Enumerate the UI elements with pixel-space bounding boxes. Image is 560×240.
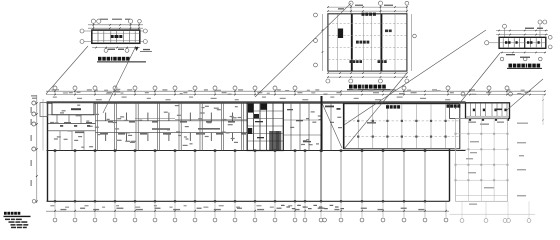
bottom dimension line [46,210,449,212]
detail 2 room label middle [356,41,359,44]
right canopy interior dots [473,109,475,112]
bottom dimension texts [60,209,66,210]
detail 3 center thick mullion [524,38,526,48]
detail 3 right axis circle lower [548,45,552,49]
stair core internal verticals [253,103,255,151]
existing building outline (light) [456,118,508,201]
detail 3 top axis circle C [543,20,547,24]
detail 2 top axis circle B [378,1,382,5]
detail 1 title underline [97,61,146,63]
detail 3 top dimension text [525,28,534,29]
right hall column ticks [357,120,359,122]
corridor line D left zone [48,130,96,132]
detail 1 right extension lines [140,30,144,32]
detail 2 top dimension line 1 [328,6,407,8]
existing building stems (light) [461,201,463,218]
detail 2 title underline [347,89,391,91]
note line 4 [11,227,16,229]
right hall outline [344,104,460,149]
detail 1 bottom dimension text [108,49,115,50]
detail 2 room label lower-right [378,60,381,63]
leader line from detail 3 to right canopy right [507,79,543,110]
detail 3 right axis circle upper [548,35,552,39]
detail 1 bottom axis circle b [125,49,129,53]
stair flight hatching [269,131,271,150]
drawing title text [4,212,7,215]
building left wall [47,102,49,202]
left dimension inner line [42,99,44,151]
detail view 1 (canopy enlarged plan) - group [80,19,152,62]
middle zone door ticks upper row [105,113,107,121]
note line 1 [5,219,10,221]
detail 1 left axis circle lower [80,40,84,44]
existing building grid verticals (light) [467,118,469,201]
leader line from detail 3 to right canopy left [455,53,500,109]
leader line from detail 2 left to plan [255,3,351,97]
detail 1 top axis circle A [91,19,95,23]
building top wall inner line [47,102,466,104]
corridor line upper middle zone [96,120,248,122]
detail 1 section arrow triangle [135,47,139,51]
left zone partition verticals [56,115,58,124]
right hall label dark [386,105,389,108]
lobby label text [71,108,81,110]
detail 3 window mullions [502,38,504,47]
drawing title underline [4,215,31,217]
right canopy label [495,109,502,111]
gap room partition [330,103,332,151]
corridor line C left zone [48,123,96,125]
left axis circle bottom corner [32,200,36,204]
right hall internal verticals [357,104,359,148]
detail view 2 (roof / machine-room enlarged plan) - group [314,1,417,90]
extra top dimension tiny texts [54,89,59,90]
detail 2 left dimension line [322,14,324,71]
left axis circles [32,101,36,105]
detail 3 top dimension line 1 [496,30,548,32]
door swing marks left zone [60,125,63,127]
middle zone door ticks lower row [105,133,107,141]
detail 2 room label lower-left [350,60,353,63]
right hall dashed horizontals [344,120,459,122]
detail 1 inner sill line bottom [93,39,140,41]
main plan top dimension line 1 [46,90,545,92]
right hall small label [367,122,376,123]
detail 2 thick wall vertical right [380,14,382,71]
long leader line from detail 3 to plan middle [344,30,486,125]
stair core dark room fill A [248,104,253,113]
detail 2 top extension stems [350,5,352,14]
rooms right of core partition verticals [290,103,292,151]
detail 3 bottom axis circle a [500,57,504,61]
detail 1 title text [98,57,102,61]
detail 3 inner sill line [500,42,545,44]
main plan top axis circles [53,86,57,90]
detail 2 left axis circle lower [314,63,318,67]
right hall thick left wall [343,104,345,149]
detail view 3 (right canopy enlarged plan) - group [485,20,552,68]
existing building column crosses (light) [455,133,457,135]
stair core dark room fill C [248,128,252,134]
detail 3 title underline [507,67,542,69]
lobby room rectangle [52,103,94,115]
detail 1 left axis circle upper [80,29,84,33]
detail 2 bottom dimension line 2 [328,76,407,78]
main floor plan - group [31,86,546,222]
right canopy inner sill [466,115,509,117]
rooms right of core horizontal [283,134,321,136]
building top wall outer line [47,101,466,103]
building right wall [449,118,451,201]
right canopy mullions [470,103,472,116]
detail 3 top axis circle A [503,24,507,28]
detail 1 grade mark [140,51,152,53]
detail 2 label text upper [362,13,365,16]
bottom grid stems [54,201,56,217]
detail 3 left extension line [489,42,499,44]
detail 1 left extension lines [84,30,92,32]
left annex porch [40,103,48,117]
main plan top dimension line 2 [46,94,545,96]
room labels left section [64,122,71,124]
detail 1 top axis extension lines [92,23,94,31]
detail 3 top axis circle B [538,20,542,24]
existing building labels (light) [470,141,479,142]
detail 1 top dimension text [100,19,108,20]
detail 3 bottom axis circle c [539,57,543,61]
open floor column grid verticals [54,151,56,202]
detail 1 top axis circle D [138,19,142,23]
left dimension texts [31,107,32,113]
detail 3 title text [509,64,513,68]
room band scattered small texts [184,136,187,137]
detail 1 interior fixture marks [111,35,114,38]
leader line from detail 1 right corner to plan [103,46,136,113]
detail 2 bottom dimension line 1 [328,72,407,74]
detail 1 bottom axis circle a [104,49,108,53]
stair core outline [247,103,283,151]
detail 1 inner sill line top [93,32,140,34]
bottom axis circles existing part [460,219,464,223]
room band bottom wall / hall top edge [47,150,466,152]
detail 2 title text [349,85,353,89]
detail 3 bottom dimension line [500,52,546,54]
detail 3 top dimension ticks [498,30,500,32]
rooms right of core labels [287,109,293,110]
existing building inner label bottom [469,204,477,205]
detail 2 bottom axis circle D [405,79,409,83]
detail 1 top dimension line 2 [88,27,143,29]
detail 2 dashed beam horizontals [328,23,406,25]
open floor column marks bottom row [54,200,56,202]
detail 3 interior marks [505,41,507,44]
detail 3 bottom dimension text [506,54,515,55]
main plan top axis stems [54,90,56,95]
left corner level mark texts [31,95,37,96]
detail 1 top dimension line 1 [88,24,143,26]
detail 2 bottom axis circle C [378,79,382,83]
detail 1 bottom dimension line [92,47,140,49]
detail 2 top axis circle C [405,1,409,5]
bottom dimension ticks [54,210,56,212]
detail 2 thick wall vertical left [351,14,353,71]
detail 1 window mullion lines [97,31,99,42]
existing building inner label top [470,152,477,153]
bottom axis circles [53,218,57,222]
left dimension line [36,95,38,203]
detail 3 bottom axis circle b [523,57,527,61]
entry vestibule dark label [447,105,450,108]
detail 2 left axis circle middle [314,39,318,43]
main plan top dimension ticks [54,90,56,92]
right canopy column dots [469,119,471,121]
detail 2 top dimension text [355,5,363,6]
detail 3 top dimension line 2 [496,34,548,36]
detail 3 top extension stems [504,28,506,37]
right canopy bottom dimension marks [468,122,476,123]
expansion joint thick wall [321,96,323,152]
corridor line lower middle zone [96,132,248,134]
detail 2 left axis circle upper [314,13,318,17]
detail 3 left axis circle [485,41,489,45]
room band horizontal segments [135,118,175,120]
leader line from detail 1 left corner to plan [46,46,88,94]
right edge dimension line (light) [542,95,544,125]
detail 2 top dimension ticks [327,6,329,8]
detail 2 plan outline rectangle [328,14,407,71]
detail 1 right axis circle upper [143,29,147,33]
detail 1 right axis circle lower [143,40,147,44]
detail 2 thin partition verticals [337,14,339,71]
detail 2 right dimension line [411,14,413,71]
detail 1 top axis circle C [128,19,132,23]
detail 2 bottom dimension ticks [327,72,329,74]
detail 2 hatch mark [385,30,388,33]
detail 1 top dimension ticks [93,24,95,26]
stair core labels [255,121,263,122]
existing building dimension line bottom (light) [450,213,536,215]
stair core dark room fill B2 [254,114,259,118]
open floor column marks top row [54,149,56,151]
left zone lower row partitions [59,131,61,151]
detail 2 top axis circle A [349,1,353,5]
detail 2 top dimension line 2 [328,10,407,12]
right canopy axis circles top [461,92,465,96]
detail 1 top axis circle B [97,19,101,23]
detail 3 plan outline rectangle [499,37,546,48]
detail 2 right axis circle [413,34,417,38]
detail 2 bottom axis circle A [326,79,330,83]
corridor line B (under lobby) [48,114,96,116]
note line 2 [9,221,15,223]
building bottom wall [47,200,450,202]
ramp diagonal in gap room [322,103,342,148]
entry vestibule box [450,103,466,118]
leader line from detail 2 right to plan [344,73,407,149]
detail 2 equipment block [338,29,343,39]
right canopy outline [466,103,510,119]
middle zone double-wall partitions [95,103,97,151]
note line 3 [11,224,16,226]
detail 1 plan outline rectangle [92,30,140,43]
stair core dark room fill B [261,104,268,110]
gap room label [325,106,334,108]
left dimension ticks [36,102,38,104]
stair core internal horizontals [247,110,283,112]
small dimension texts above top wall [53,97,57,98]
existing building grid horizontals (light) [456,133,508,135]
main plan top dimension text row [52,89,56,90]
detail 2 bottom axis circle B [349,79,353,83]
